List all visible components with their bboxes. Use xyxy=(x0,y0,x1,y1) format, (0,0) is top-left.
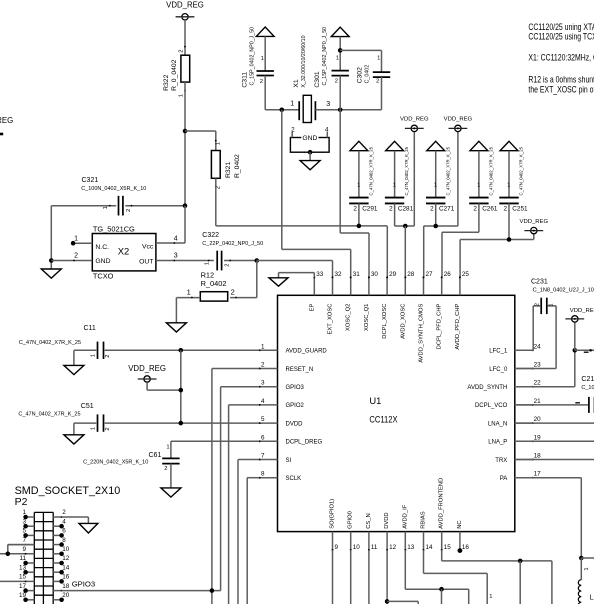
capacitor C321 xyxy=(51,177,185,215)
svg-text:EP: EP xyxy=(309,303,315,311)
svg-text:VDD_REG: VDD_REG xyxy=(0,116,13,125)
U1 pin 13 AVDD_IF (bottom) xyxy=(402,504,415,551)
U1 pin 4 GPIO2 (left) xyxy=(259,398,305,409)
inductor L231 xyxy=(578,580,594,604)
power symbol VDD_REG (pin 22) xyxy=(565,308,594,322)
junction C321 right / main trunk xyxy=(183,203,188,208)
U1 pin 10 GPIO0 (bottom) xyxy=(348,511,361,551)
wire CS_N U1 pin 11 down xyxy=(368,550,370,604)
power symbol VDD_REG (left mid) xyxy=(128,364,166,382)
wire P2 pin 7 to pin 9 net xyxy=(6,545,35,557)
capacitor C61 xyxy=(83,444,179,488)
svg-text:15: 15 xyxy=(444,544,452,551)
svg-text:CC1120/25 using TCXO: CC1120/25 using TCXO xyxy=(528,32,594,42)
svg-text:C_47N_0402_X7R_K_25: C_47N_0402_X7R_K_25 xyxy=(489,146,494,195)
wire DCPL_XOSC rail to U1 pin 29 xyxy=(216,226,387,278)
svg-text:VDD_REG: VDD_REG xyxy=(520,219,549,225)
svg-text:18: 18 xyxy=(534,453,542,460)
svg-text:DCPL_XOSC: DCPL_XOSC xyxy=(382,304,388,339)
svg-text:TCXO: TCXO xyxy=(93,272,114,281)
svg-text:2: 2 xyxy=(74,253,78,260)
svg-text:25: 25 xyxy=(462,271,470,278)
svg-text:GND: GND xyxy=(302,135,317,142)
wire SI U1 pin 7 down xyxy=(238,460,259,604)
svg-text:1: 1 xyxy=(91,427,97,430)
svg-text:2: 2 xyxy=(291,126,295,133)
U1 pin 16 NC no-connect dot xyxy=(458,548,463,553)
U1 pin 18 TRX (right) xyxy=(495,453,541,464)
svg-text:X1: CC1120:32MHz, CC112: X1: CC1120:32MHz, CC112 xyxy=(528,53,594,63)
X2 pin 2 wire to GND net xyxy=(51,253,92,262)
U1 pin 22 AVDD_SYNTH (right) xyxy=(467,380,541,391)
ground symbol (P2) xyxy=(79,523,98,533)
svg-text:2: 2 xyxy=(503,205,507,212)
wire X1 pin 3 to C301/C302 node xyxy=(315,108,381,113)
wire C231 to LFC_0 U1 pin 23 xyxy=(515,306,556,369)
svg-text:GPIO3: GPIO3 xyxy=(72,580,96,589)
capacitor C291 xyxy=(349,146,378,212)
svg-text:VDD_REG: VDD_REG xyxy=(444,116,473,122)
svg-text:1: 1 xyxy=(357,183,360,189)
capacitor C231 xyxy=(531,278,594,314)
svg-text:N.C.: N.C. xyxy=(95,244,109,251)
svg-text:19: 19 xyxy=(19,592,27,599)
svg-text:C_220N_0402_X5R_K_10: C_220N_0402_X5R_K_10 xyxy=(83,460,148,466)
resistor R321 xyxy=(211,140,240,189)
svg-text:1: 1 xyxy=(290,101,294,108)
junction AVDD_SYNTH node xyxy=(573,348,578,353)
svg-text:4: 4 xyxy=(174,235,178,242)
wire C311 to crystal X1 pin 1 xyxy=(265,108,299,113)
svg-text:3: 3 xyxy=(261,380,265,387)
svg-text:NC: NC xyxy=(457,520,463,528)
svg-text:1: 1 xyxy=(103,206,109,209)
U1 pin 23 LFC_0 (right) xyxy=(489,362,541,373)
svg-text:3: 3 xyxy=(22,518,26,525)
U1 pin 19 LNA_P (right) xyxy=(488,434,541,445)
U1 pin 1 AVDD_GUARD (left) xyxy=(259,343,328,354)
U1 pin 16 NC (bottom) xyxy=(457,520,470,551)
svg-text:AVDD_PFD_CHP: AVDD_PFD_CHP xyxy=(455,303,461,349)
capacitor C51 xyxy=(18,403,259,432)
svg-text:GPIO3: GPIO3 xyxy=(286,385,305,391)
U1 pin 14 RBIAS (bottom) xyxy=(421,511,434,551)
U1 pin 12 DVDD (bottom) xyxy=(384,512,397,551)
svg-text:2: 2 xyxy=(376,79,379,85)
wire PA U1 pin 17 to inductor xyxy=(515,478,594,580)
ground symbol (R12) xyxy=(166,323,186,332)
svg-text:X2: X2 xyxy=(118,246,129,257)
P2 pin 15 xyxy=(0,574,34,583)
svg-text:C_47N_0402_X7R_K_25: C_47N_0402_X7R_K_25 xyxy=(369,146,374,195)
svg-text:R321: R321 xyxy=(225,162,232,178)
svg-text:VDD_REG: VDD_REG xyxy=(400,116,429,122)
svg-text:DVDD: DVDD xyxy=(384,512,390,528)
svg-text:31: 31 xyxy=(353,271,361,278)
svg-text:1: 1 xyxy=(216,142,222,145)
svg-text:16: 16 xyxy=(62,574,70,581)
P2 pin 11 xyxy=(19,555,34,565)
svg-text:XOSC_Q2: XOSC_Q2 xyxy=(346,304,352,331)
svg-text:19: 19 xyxy=(534,434,542,441)
svg-text:CC112X: CC112X xyxy=(369,414,397,425)
P2 pin 9 xyxy=(0,546,34,555)
P2 pin 12 xyxy=(53,555,70,565)
svg-text:C211: C211 xyxy=(581,376,594,383)
wire to R321 xyxy=(185,131,216,151)
wire EXT_XOSC node down to R12 xyxy=(230,261,257,298)
svg-text:R12 is a 0ohms shunt to c: R12 is a 0ohms shunt to c xyxy=(528,75,594,85)
wire C261 to U1 pin 26 DCPL_PFD_CHP xyxy=(442,203,479,277)
svg-text:DVDD: DVDD xyxy=(286,421,304,427)
ground symbol (C51) xyxy=(64,435,84,444)
svg-text:C51: C51 xyxy=(81,403,94,410)
svg-text:14: 14 xyxy=(62,564,70,571)
svg-text:DCPL_VCO: DCPL_VCO xyxy=(475,403,508,409)
svg-text:C_1N8_0402_U2J_J_10: C_1N8_0402_U2J_J_10 xyxy=(533,288,594,294)
svg-text:2: 2 xyxy=(353,205,357,212)
wire TRX U1 pin 18 xyxy=(515,459,594,461)
svg-text:C261: C261 xyxy=(482,205,498,212)
U1 pin 15 AVDD_FRONTEND (bottom) xyxy=(439,478,452,551)
wire C281/VDD to U1 pin 28 AVDD_XOSC xyxy=(395,132,415,278)
svg-text:1: 1 xyxy=(584,567,590,570)
wire C321 left to GND xyxy=(49,206,54,269)
wire DVDD U1 pin 12 down xyxy=(385,550,418,604)
svg-text:C_100N_0402_X5R_K_10: C_100N_0402_X5R_K_10 xyxy=(581,385,594,391)
svg-text:R_0402: R_0402 xyxy=(234,154,241,178)
U1 pin 31 XOSC_Q2 (top) xyxy=(346,271,361,331)
svg-text:1: 1 xyxy=(22,509,26,516)
svg-text:R_0402: R_0402 xyxy=(201,279,227,288)
P2 pin 4 xyxy=(53,518,66,528)
wire EXT_XOSC node to U1 pin 32 xyxy=(257,261,333,278)
svg-text:9: 9 xyxy=(335,544,339,551)
wire VDD_REG to R322 xyxy=(184,20,186,55)
svg-text:TG_5021CG: TG_5021CG xyxy=(93,224,135,233)
svg-text:TRX: TRX xyxy=(495,458,507,464)
P2 pin 20 xyxy=(53,592,70,602)
svg-text:29: 29 xyxy=(389,271,397,278)
svg-text:C322: C322 xyxy=(202,232,219,239)
svg-text:32: 32 xyxy=(335,271,343,278)
svg-text:1: 1 xyxy=(178,94,184,97)
capacitor C301 xyxy=(314,27,349,110)
svg-text:DCPL_DREG: DCPL_DREG xyxy=(286,440,323,446)
U1 pin 8 SCLK (left) xyxy=(259,471,302,482)
wire LNA_N U1 pin 20 xyxy=(515,422,594,424)
svg-text:C311: C311 xyxy=(241,72,248,88)
junction X1 pin1 / XOSC_Q2 branch xyxy=(280,108,285,113)
svg-text:C_47N_0402_X7R_K_25: C_47N_0402_X7R_K_25 xyxy=(404,146,409,195)
junction VDD_REG / trunk xyxy=(179,388,184,393)
svg-text:2: 2 xyxy=(389,205,393,212)
wire C11 to GND xyxy=(73,350,75,365)
svg-text:26: 26 xyxy=(444,271,452,278)
svg-text:2: 2 xyxy=(473,205,477,212)
svg-text:C_22P_0402_NP0_J_50: C_22P_0402_NP0_J_50 xyxy=(202,241,263,247)
svg-text:17: 17 xyxy=(19,583,27,590)
crystal X1 xyxy=(290,35,330,122)
svg-text:3: 3 xyxy=(326,101,330,108)
svg-text:6: 6 xyxy=(62,528,66,535)
svg-text:DCPL_PFD_CHP: DCPL_PFD_CHP xyxy=(437,303,443,349)
svg-text:7: 7 xyxy=(22,537,26,544)
svg-text:2: 2 xyxy=(534,303,540,306)
X2 pin 3 OUT wire to C322 xyxy=(156,253,214,262)
svg-text:LFC_1: LFC_1 xyxy=(489,349,508,355)
svg-text:23: 23 xyxy=(534,362,542,369)
svg-text:RESET_N: RESET_N xyxy=(286,367,314,373)
U1 pin 29 DCPL_XOSC (top) xyxy=(382,271,397,339)
svg-text:4: 4 xyxy=(62,518,66,525)
power arrow above C261 xyxy=(470,141,488,150)
svg-text:15: 15 xyxy=(19,574,27,581)
junction AVDD_GUARD trunk top xyxy=(179,348,184,353)
power symbol VDD_REG (over pin 27) xyxy=(444,116,473,131)
svg-text:1: 1 xyxy=(204,262,210,265)
svg-text:C291: C291 xyxy=(362,205,378,212)
wire SCLK U1 pin 8 down xyxy=(247,478,259,604)
svg-text:1: 1 xyxy=(507,183,510,189)
svg-text:AVDD_GUARD: AVDD_GUARD xyxy=(286,349,328,355)
junction AVDD_IF branch xyxy=(439,587,444,592)
power symbol VDD_REG (left edge, clipped) xyxy=(0,116,13,134)
power symbol VDD_REG (right of C251) xyxy=(520,219,549,234)
op-amp U1 CC112X body xyxy=(278,295,515,531)
svg-text:SI: SI xyxy=(286,458,292,464)
wire R322 to node VDD_X2 / junction xyxy=(183,82,188,206)
svg-text:C321: C321 xyxy=(82,177,99,184)
svg-text:C_47N_0402_X7R_K_25: C_47N_0402_X7R_K_25 xyxy=(519,146,524,195)
wire C271/VDD to U1 pin 27 AVDD_SYNTH_CMOS xyxy=(424,132,458,278)
svg-text:L23: L23 xyxy=(590,595,594,602)
U1 pin 32 EXT_XOSC (top) xyxy=(328,271,343,335)
P2 pin 14 xyxy=(53,564,70,574)
svg-text:1: 1 xyxy=(261,56,264,62)
P2 pin 17 xyxy=(19,583,34,593)
capacitor C311 xyxy=(241,27,274,110)
wire GPIO2 U1 pin 4 down xyxy=(229,405,260,604)
P2 pin 6 xyxy=(53,528,66,538)
svg-text:C_100N_0402_X5R_K_10: C_100N_0402_X5R_K_10 xyxy=(81,186,146,192)
svg-text:8: 8 xyxy=(261,471,265,478)
svg-text:SO(GPIO1): SO(GPIO1) xyxy=(330,499,336,529)
svg-text:20: 20 xyxy=(62,592,70,599)
svg-text:3: 3 xyxy=(174,253,178,260)
svg-text:2: 2 xyxy=(105,427,111,430)
svg-text:16: 16 xyxy=(462,544,470,551)
junction PA node xyxy=(579,556,584,561)
capacitor C322 xyxy=(202,232,263,270)
wire VDD trunk down to DVDD row xyxy=(180,350,182,423)
P2 pin 19 xyxy=(19,592,34,602)
svg-text:CS_N: CS_N xyxy=(366,513,372,528)
svg-text:2: 2 xyxy=(164,466,167,472)
wire AVDD_FRONTEND U1 pin 15 net xyxy=(442,550,552,604)
power symbol VDD_REG (top left) xyxy=(166,1,204,21)
svg-text:11: 11 xyxy=(19,555,26,562)
svg-text:1: 1 xyxy=(336,56,339,62)
svg-text:1: 1 xyxy=(74,235,78,242)
wire DCPL_VCO U1 pin 21 to C211 xyxy=(515,404,589,406)
svg-text:XOSC_Q1: XOSC_Q1 xyxy=(364,304,370,331)
U1 pin 20 LNA_N (right) xyxy=(488,416,541,427)
capacitor C11 xyxy=(19,325,181,359)
wire R12 pin1 to GND xyxy=(175,298,177,323)
junction C271 / rail xyxy=(433,224,438,229)
svg-text:EXT_XOSC: EXT_XOSC xyxy=(328,304,334,335)
svg-text:LFC_0: LFC_0 xyxy=(489,367,508,373)
svg-text:C_0402: C_0402 xyxy=(364,65,370,84)
connector P2 SMD_SOCKET_2X10 title xyxy=(15,485,121,508)
svg-text:C61: C61 xyxy=(149,452,162,459)
svg-text:SCLK: SCLK xyxy=(286,476,302,482)
svg-text:2: 2 xyxy=(335,79,338,85)
wire AVDD_IF U1 pin 13 net xyxy=(405,550,468,604)
U1 pin 17 PA (right) xyxy=(500,471,541,482)
svg-text:LNA_N: LNA_N xyxy=(488,421,507,427)
svg-text:R_0_0402: R_0_0402 xyxy=(171,59,178,91)
U1 pin 7 SI (left) xyxy=(259,453,292,464)
junction C251 / rail xyxy=(507,237,512,242)
wire C51 to GND xyxy=(73,423,75,435)
U1 pin 28 AVDD_XOSC (top) xyxy=(400,271,415,339)
wire XOSC_Q2: X1 pin1 to U1 pin 31 xyxy=(282,110,351,278)
wire C291 to rail xyxy=(358,203,360,226)
power arrow above C281 xyxy=(386,141,404,150)
svg-text:C_47N_0402_X7R_K_25: C_47N_0402_X7R_K_25 xyxy=(19,340,81,346)
U1 pin 21 DCPL_VCO (right) xyxy=(475,398,541,409)
svg-text:14: 14 xyxy=(426,544,434,551)
svg-text:5: 5 xyxy=(22,528,26,535)
X2 pin 4 Vcc wire xyxy=(156,206,185,244)
svg-text:AVDD_FRONTEND: AVDD_FRONTEND xyxy=(439,478,445,529)
svg-text:1: 1 xyxy=(91,354,97,357)
svg-text:17: 17 xyxy=(534,471,542,478)
U1 pin 5 DVDD (left) xyxy=(259,416,304,427)
node note text xyxy=(528,22,594,95)
svg-text:VDD_REG: VDD_REG xyxy=(128,364,166,373)
svg-text:1: 1 xyxy=(261,343,265,350)
svg-text:2: 2 xyxy=(179,49,185,52)
svg-text:13: 13 xyxy=(407,544,415,551)
P2 pin 1 xyxy=(22,509,34,519)
P2 pin 5 xyxy=(22,528,34,538)
svg-text:AVDD_SYNTH: AVDD_SYNTH xyxy=(467,385,507,391)
svg-text:2: 2 xyxy=(260,79,263,85)
power symbol VDD_REG (over pin 28) xyxy=(400,116,429,131)
junction C51 / trunk xyxy=(179,421,184,426)
svg-text:C302: C302 xyxy=(356,67,363,83)
svg-text:1: 1 xyxy=(166,444,169,450)
wire SO(GPIO1) U1 pin 9 down xyxy=(332,550,334,604)
svg-text:2: 2 xyxy=(430,205,434,212)
wire VDD_REG to trunk xyxy=(147,382,183,392)
junction DVDD bottom branch xyxy=(385,599,390,604)
wire AVDD_SYNTH U1 pin 22 to VDD_REG xyxy=(515,322,594,387)
junction C301/C302 top xyxy=(338,48,343,53)
svg-text:1: 1 xyxy=(434,183,437,189)
capacitor C261 xyxy=(469,146,498,212)
U1 pin 27 AVDD_SYNTH_CMOS (top) xyxy=(419,271,434,363)
wire GPIO3 U1 pin 3 down to P2 pin 18 xyxy=(221,387,260,591)
svg-text:6: 6 xyxy=(261,434,265,441)
junction R322/R321 branch xyxy=(183,129,188,134)
svg-text:GPIO0: GPIO0 xyxy=(348,511,354,529)
capacitor C251 xyxy=(499,146,528,212)
svg-text:4: 4 xyxy=(261,398,265,405)
svg-text:30: 30 xyxy=(371,271,379,278)
wire U1 pin 33 EP to ground arrow xyxy=(279,273,315,278)
svg-text:1: 1 xyxy=(377,56,380,62)
junction pin28 riser xyxy=(403,224,408,229)
svg-text:RBIAS: RBIAS xyxy=(421,511,427,529)
U1 pin 26 DCPL_PFD_CHP (top) xyxy=(437,271,452,349)
svg-text:C_47N_0402_X7R_K_25: C_47N_0402_X7R_K_25 xyxy=(18,411,80,417)
svg-text:X_32.000/10/20/60/10: X_32.000/10/20/60/10 xyxy=(301,35,307,87)
U1 pin 9 SO(GPIO1) (bottom) xyxy=(330,499,339,551)
svg-text:X1: X1 xyxy=(293,79,300,88)
P2 pin 10 xyxy=(53,546,70,556)
junction X1 pin3 node xyxy=(338,108,343,113)
capacitor C211 xyxy=(575,376,594,413)
svg-text:1: 1 xyxy=(393,183,396,189)
wire LNA_P U1 pin 19 xyxy=(515,440,594,442)
svg-text:SMD_SOCKET_2X10: SMD_SOCKET_2X10 xyxy=(15,485,121,497)
wire GPIO3 from P2 pin 18 xyxy=(62,580,221,593)
svg-text:AVDD_IF: AVDD_IF xyxy=(402,504,408,529)
svg-text:11: 11 xyxy=(371,544,378,551)
svg-text:C271: C271 xyxy=(439,205,455,212)
svg-text:7: 7 xyxy=(261,453,265,460)
svg-text:24: 24 xyxy=(534,343,542,350)
wire RESET_N U1 pin 2 down xyxy=(212,369,259,604)
svg-text:9: 9 xyxy=(22,546,26,553)
svg-text:10: 10 xyxy=(353,544,361,551)
svg-text:5: 5 xyxy=(261,416,265,423)
power arrow above C301 xyxy=(331,27,349,36)
wire XOSC_Q1: X1 pin3 to U1 pin 30 xyxy=(340,110,369,278)
power arrow above C271 xyxy=(427,141,445,150)
svg-text:C251: C251 xyxy=(512,205,528,212)
svg-text:21: 21 xyxy=(534,398,542,405)
power arrow above C311 xyxy=(256,27,274,36)
svg-text:10: 10 xyxy=(62,546,70,553)
resistor R12 xyxy=(176,271,237,302)
capacitor C271 xyxy=(426,146,455,212)
X2 pin 1 N.C. with dot xyxy=(71,235,93,245)
connector P2 body xyxy=(34,512,53,604)
svg-text:AVDD_SYNTH_CMOS: AVDD_SYNTH_CMOS xyxy=(419,303,425,362)
svg-text:33: 33 xyxy=(316,271,324,278)
svg-text:GND: GND xyxy=(95,258,110,265)
X1 ground pad box GND pins 2 4 xyxy=(290,126,329,160)
U1 pin 30 XOSC_Q1 (top) xyxy=(364,271,379,331)
P2 pin 13 xyxy=(19,564,34,574)
svg-text:20: 20 xyxy=(534,416,542,423)
svg-text:C281: C281 xyxy=(398,205,414,212)
svg-text:C_15P_0402_NP0_J_50: C_15P_0402_NP0_J_50 xyxy=(322,27,328,86)
svg-text:12: 12 xyxy=(62,555,70,562)
svg-text:U1: U1 xyxy=(369,395,381,406)
junction EXT_XOSC node xyxy=(254,258,259,263)
svg-text:C301: C301 xyxy=(314,71,321,87)
svg-text:1: 1 xyxy=(489,594,492,600)
svg-text:22: 22 xyxy=(534,380,542,387)
resistor R322 xyxy=(163,46,190,98)
svg-text:C11: C11 xyxy=(84,325,96,332)
